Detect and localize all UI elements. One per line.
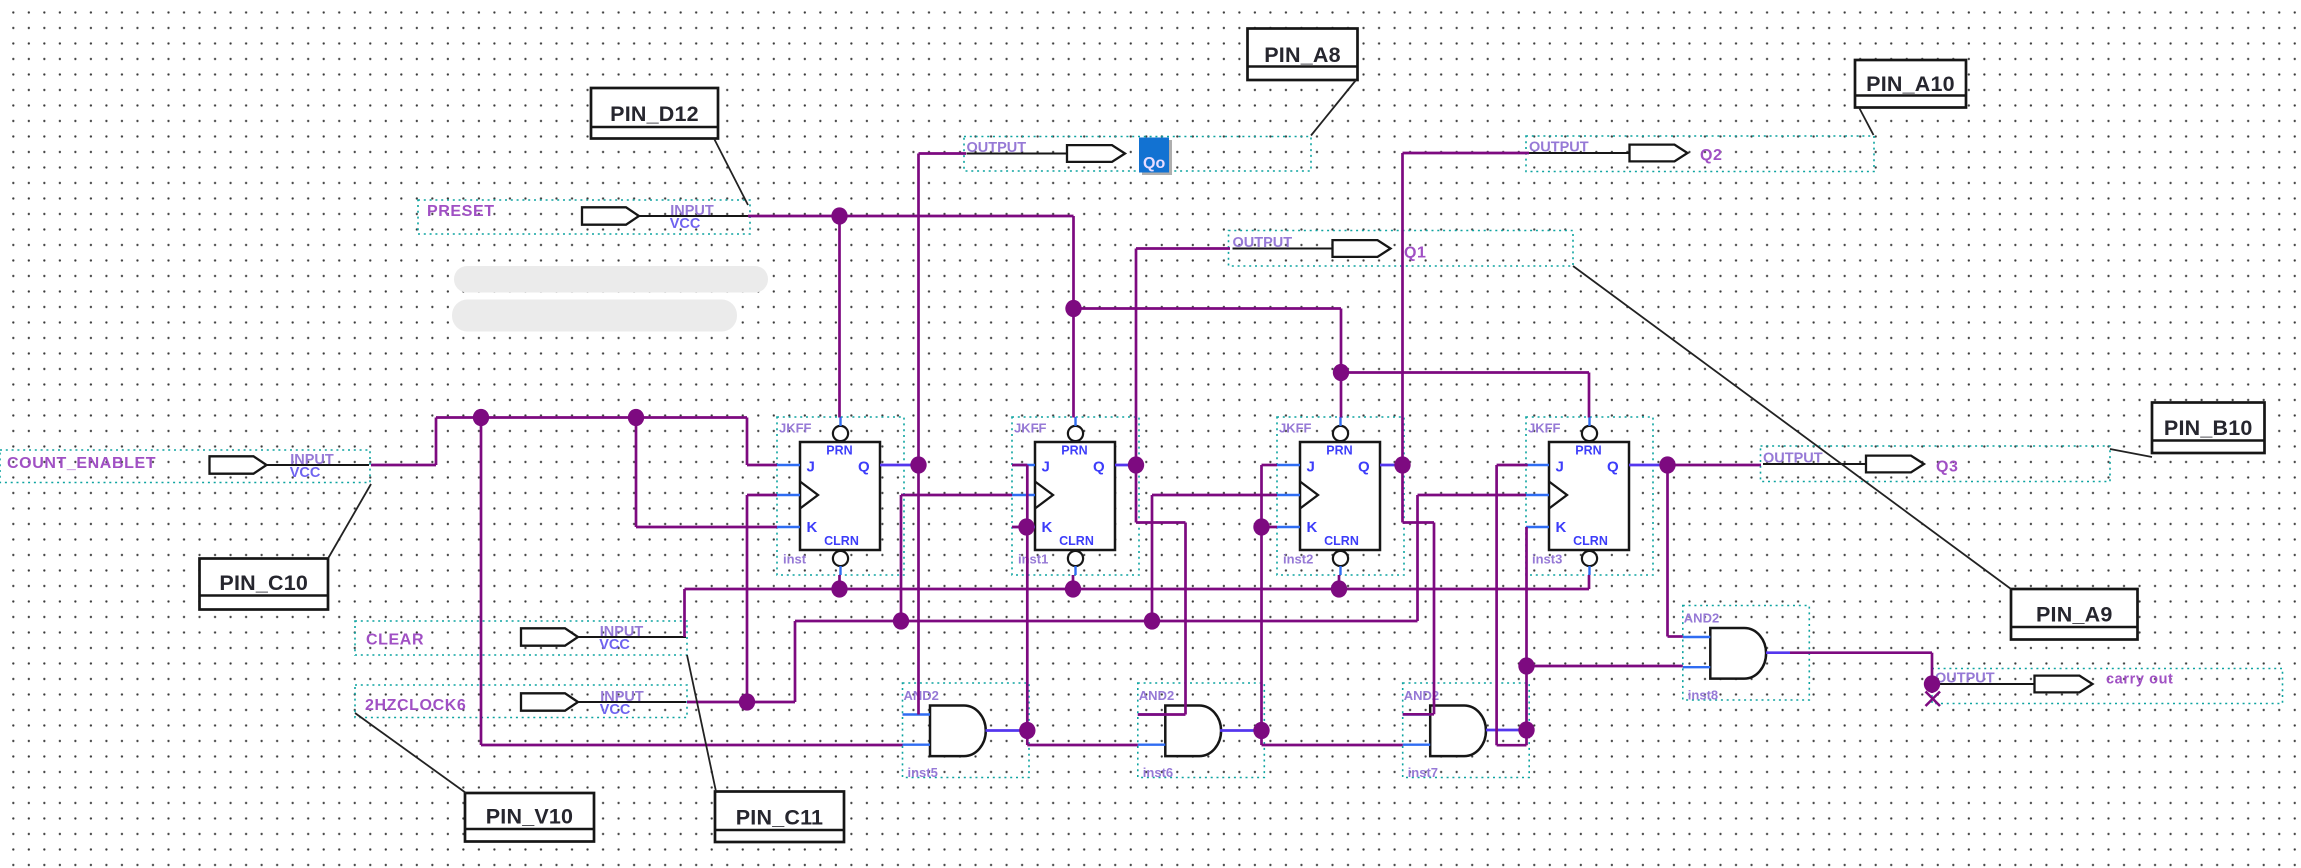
svg-text:J: J (1042, 459, 1050, 476)
pin assignment callout PIN_A9 (2011, 589, 2138, 640)
svg-text:PIN_A10: PIN_A10 (1866, 72, 1955, 96)
svg-text:K: K (1307, 519, 1318, 536)
wire net COUNT_ENABLE (371, 418, 903, 746)
wire net inst7 output (J4 K4 and inst8 input) (1486, 465, 1683, 745)
svg-text:CLRN: CLRN (1573, 534, 1608, 548)
wire net inst6 output (J3 K3) (1220, 465, 1403, 745)
callout leader line PIN_B10 (2110, 449, 2152, 457)
output pin Qo (964, 137, 1311, 172)
callout leader line PIN_A10 (1859, 108, 1874, 136)
svg-text:K: K (1042, 519, 1053, 536)
junction inst7 out to inst8 lower input (1518, 657, 1534, 674)
svg-text:Q: Q (858, 459, 870, 476)
wire net inst5 output (J2 K2) (986, 465, 1138, 745)
svg-text:VCC: VCC (599, 637, 630, 653)
pin assignment callout PIN_D12 (591, 88, 718, 139)
svg-text:CLEAR: CLEAR (366, 632, 424, 649)
svg-text:Qo: Qo (1143, 155, 1165, 172)
svg-text:Q: Q (1607, 459, 1619, 476)
svg-text:PIN_D12: PIN_D12 (610, 102, 699, 126)
and gate inst6 (AND2) (1138, 683, 1265, 780)
junction CLEAR at CLRN3 (1331, 580, 1347, 597)
pin assignment callout PIN_C10 (200, 559, 329, 610)
svg-text:AND2: AND2 (1139, 688, 1174, 703)
svg-text:CLRN: CLRN (1324, 534, 1359, 548)
svg-text:PIN_C10: PIN_C10 (219, 571, 308, 595)
wire net Q1 (FF2 Q to output and inst6) (1115, 249, 1230, 715)
junction node inst5 output (1019, 722, 1035, 739)
and gate inst7 (AND2) (1403, 683, 1530, 780)
svg-text:inst8: inst8 (1688, 688, 1718, 703)
svg-text:JKFF: JKFF (1279, 421, 1312, 436)
junction COUNT_ENABLE to K1 (628, 409, 644, 426)
junction node Q0 (910, 456, 926, 473)
svg-text:J: J (1307, 459, 1315, 476)
redacted text bar 2 (452, 300, 737, 332)
selected net label Qo (highlighted blue) (1139, 138, 1172, 176)
callout leader line PIN_V10 (355, 713, 466, 793)
output pin Q1 (1229, 231, 1574, 267)
svg-text:J: J (1556, 459, 1564, 476)
wire net Q0 (FF1 Q to output Qo and inst5) (880, 154, 966, 715)
svg-text:inst1: inst1 (1018, 552, 1048, 567)
svg-text:PIN_B10: PIN_B10 (2164, 416, 2253, 440)
pin assignment callout PIN_C11 (715, 792, 844, 843)
junction inst6 out at K3 (1253, 518, 1269, 535)
svg-text:CLRN: CLRN (824, 534, 859, 548)
svg-text:VCC: VCC (670, 216, 701, 232)
jk flip-flop inst2 (JKFF) (1277, 417, 1404, 575)
callout leader line PIN_D12 (714, 139, 748, 206)
svg-text:inst5: inst5 (908, 765, 938, 780)
wire net carry out (1766, 653, 1932, 693)
wire net CLEAR distribution (685, 575, 1590, 637)
svg-text:JKFF: JKFF (1014, 421, 1047, 436)
svg-text:PRN: PRN (1061, 444, 1087, 458)
svg-text:PIN_V10: PIN_V10 (486, 805, 573, 829)
svg-text:K: K (1556, 519, 1567, 536)
svg-text:2HZCLOCK6: 2HZCLOCK6 (365, 697, 466, 714)
junction CLEAR at CLRN1 (831, 580, 847, 597)
jk flip-flop inst3 (JKFF) (1526, 417, 1653, 575)
svg-text:VCC: VCC (290, 465, 321, 481)
jk flip-flop inst (JKFF) (777, 417, 904, 575)
svg-text:PRN: PRN (1326, 444, 1352, 458)
jk flip-flop inst1 (JKFF) (1012, 417, 1139, 575)
wire net Q2 (FF3 Q to output and inst7) (1380, 153, 1529, 714)
pin assignment callout PIN_A10 (1855, 60, 1966, 108)
junction clock at 2HZ input (739, 693, 755, 710)
svg-text:Q: Q (1358, 459, 1370, 476)
svg-text:JKFF: JKFF (779, 421, 812, 436)
junction clock to FF2 (893, 612, 909, 629)
junction node inst7 output (1518, 721, 1534, 738)
svg-text:inst7: inst7 (1408, 765, 1438, 780)
input pin COUNT_ENABLET (0, 450, 370, 483)
junction CLEAR at CLRN2 (1065, 580, 1081, 597)
input pin 2HZCLOCK6 (355, 685, 687, 718)
svg-text:K: K (807, 519, 818, 536)
no-connect X marker at carry out (1926, 692, 1941, 707)
input pin PRESET (418, 200, 750, 234)
and gate inst8 (AND2) (1683, 606, 1810, 703)
pin assignment callout PIN_B10 (2152, 403, 2265, 454)
svg-text:VCC: VCC (600, 702, 631, 718)
callout leader line PIN_C11 (687, 655, 716, 792)
svg-text:AND2: AND2 (1684, 611, 1719, 626)
svg-text:PRN: PRN (826, 444, 852, 458)
junction inst5 out at K2 (1018, 518, 1034, 535)
svg-text:CLRN: CLRN (1059, 534, 1094, 548)
junction node carry out (1924, 675, 1940, 692)
junction PRESET at PRN2 (1065, 300, 1081, 317)
svg-text:inst: inst (783, 552, 807, 567)
and gate inst5 (AND2) (903, 683, 1030, 780)
junction COUNT_ENABLE to AND chain (473, 409, 489, 426)
svg-text:inst3: inst3 (1532, 552, 1562, 567)
svg-text:JKFF: JKFF (1528, 421, 1561, 436)
svg-text:carry out: carry out (2106, 672, 2173, 688)
svg-text:AND2: AND2 (904, 688, 939, 703)
junction node inst6 output (1253, 722, 1269, 739)
output pin Q2 (1526, 136, 1874, 172)
svg-text:PIN_A9: PIN_A9 (2036, 603, 2112, 627)
svg-text:Q3: Q3 (1936, 459, 1959, 476)
output pin carry out (1932, 669, 2283, 704)
junction PRESET at PRN1 (831, 207, 847, 224)
svg-text:PRESET: PRESET (427, 203, 495, 220)
svg-text:PIN_C11: PIN_C11 (736, 806, 823, 830)
callout leader line PIN_A9 (1573, 266, 2011, 589)
svg-text:COUNT_ENABLET: COUNT_ENABLET (7, 455, 156, 472)
svg-text:PIN_A8: PIN_A8 (1264, 43, 1340, 67)
svg-text:PRN: PRN (1575, 444, 1601, 458)
wire net PRESET distribution (748, 216, 1589, 418)
wire net 2HZCLOCK clock distribution (687, 495, 1526, 702)
callout leader line PIN_C10 (328, 484, 371, 559)
junction node Q2 (1394, 456, 1410, 473)
pin assignment callout PIN_V10 (465, 793, 594, 842)
input pin CLEAR (355, 621, 687, 655)
redacted text bar 1 (454, 266, 768, 293)
svg-text:inst6: inst6 (1143, 765, 1173, 780)
junction node Q1 (1128, 456, 1144, 473)
callout leader line PIN_A8 (1311, 80, 1356, 136)
svg-text:J: J (807, 459, 815, 476)
svg-text:inst2: inst2 (1283, 552, 1313, 567)
svg-text:Q1: Q1 (1404, 245, 1427, 262)
junction PRESET at PRN3 (1333, 364, 1349, 381)
svg-text:Q2: Q2 (1700, 147, 1723, 164)
pin assignment callout PIN_A8 (1248, 29, 1358, 81)
junction clock to FF3 (1144, 612, 1160, 629)
svg-text:Q: Q (1093, 459, 1105, 476)
output pin Q3 (1761, 446, 2111, 482)
junction node Q3 (1659, 456, 1675, 473)
wire net Q3 (FF4 Q to output and inst8) (1629, 465, 1761, 637)
